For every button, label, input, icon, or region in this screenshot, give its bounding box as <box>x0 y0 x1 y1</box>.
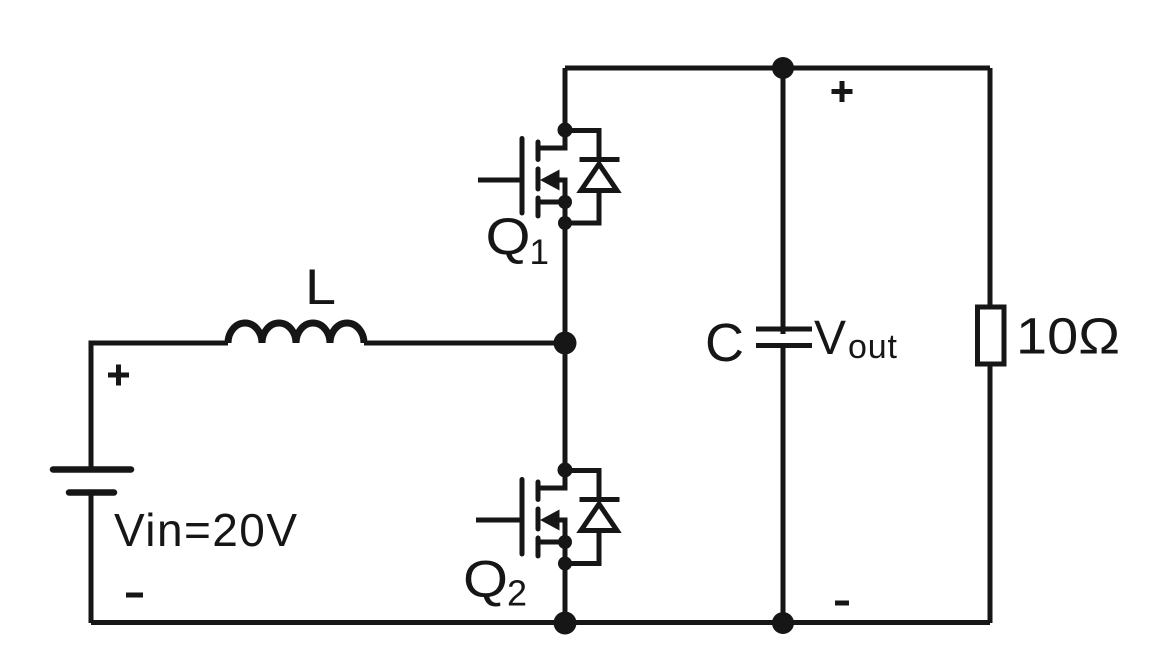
wire: Q2 source down to bottom rail <box>563 564 568 624</box>
Q1 drain node dot <box>558 123 573 138</box>
Q1 source/body dot <box>558 195 572 209</box>
Q2 body arrow line <box>558 520 565 542</box>
svg-text:2: 2 <box>507 573 527 614</box>
battery Vin negative plate (short) <box>69 489 114 496</box>
wire: left rail lower (battery - plate to bottom rail) <box>89 493 94 624</box>
wire: inductor right lead to switching node <box>364 341 565 346</box>
transistor Q1 (N-MOSFET with body diode) <box>478 123 620 231</box>
Q2 drain internal connection <box>538 470 565 488</box>
label + (output positive) <box>832 81 853 102</box>
svg-text:10Ω: 10Ω <box>1016 308 1120 365</box>
label + (Vin positive) <box>108 365 129 386</box>
wire: top rail from Q1 drain branch to right rail <box>565 66 990 71</box>
svg-text:1: 1 <box>530 233 549 272</box>
wire: Q1 drain up to top rail <box>563 68 568 130</box>
resistor R_load body <box>978 307 1005 364</box>
wire: right rail lower (resistor to bottom rail) <box>988 364 993 623</box>
Q2 drain node dot <box>558 463 573 478</box>
Q1 body diode triangle <box>581 164 617 191</box>
node: bottom capacitor junction dot <box>772 612 794 634</box>
Q2 diode branch bottom <box>565 531 599 564</box>
label - (Vin negative) <box>126 593 143 598</box>
Q2 body arrow head <box>540 510 560 531</box>
Q2 body diode cathode bar <box>580 497 620 502</box>
Q2 source/body dot <box>558 535 572 549</box>
Q2 diode branch top <box>565 471 599 498</box>
Q2 diode/source junction dot <box>558 557 572 571</box>
svg-text:out: out <box>848 328 898 366</box>
label Q2 <box>463 551 527 614</box>
wire: switching node down to Q2 drain <box>563 343 568 470</box>
Q1 body arrow line <box>558 180 565 202</box>
label Q1 <box>486 208 549 272</box>
Q1 body diode cathode bar <box>580 157 620 162</box>
battery Vin positive plate (long) <box>53 466 131 473</box>
svg-text:Q: Q <box>463 551 508 609</box>
label - (output negative) <box>835 601 849 606</box>
wire: right rail upper (top rail corner down to resistor) <box>988 68 993 307</box>
svg-text:Q: Q <box>486 208 531 266</box>
Q2 source internal connection <box>538 542 565 564</box>
node: top output junction dot <box>772 57 794 79</box>
label Vout <box>814 312 898 366</box>
inductor L winding (4 arcs) <box>228 323 364 343</box>
transistor Q2 (N-MOSFET with body diode) <box>476 463 620 571</box>
Q1 source internal connection <box>538 202 565 223</box>
svg-text:C: C <box>705 313 744 373</box>
Q1 diode branch bottom <box>565 191 599 224</box>
capacitor C branch upper wire <box>781 68 786 334</box>
Q1 channel segments <box>536 142 541 216</box>
capacitor C top plate <box>756 327 812 332</box>
Q2 gate lead <box>476 518 522 523</box>
wire: inductor left lead <box>89 341 229 346</box>
Q2 channel segments <box>536 482 541 556</box>
Q1 drain internal connection <box>538 130 565 148</box>
svg-text:L: L <box>305 259 336 315</box>
node: switching node junction dot <box>554 332 577 355</box>
node: bottom Q2 junction dot <box>554 612 577 635</box>
wire: left rail upper (inductor corner down to battery + plate) <box>89 343 94 469</box>
Q2 gate bar <box>520 480 525 555</box>
Q2 body diode triangle <box>581 504 617 531</box>
capacitor C branch lower wire <box>781 346 786 624</box>
svg-text:Vin=20V: Vin=20V <box>114 504 297 556</box>
Q1 gate lead <box>478 178 522 183</box>
Q1 gate bar <box>520 139 525 214</box>
svg-text:V: V <box>814 312 846 365</box>
Q1 diode branch top <box>565 131 599 158</box>
wire: bottom rail <box>91 620 990 625</box>
wire: switching node up to Q1 source <box>563 223 568 343</box>
capacitor C bottom plate <box>756 343 812 348</box>
Q1 body arrow head <box>540 170 560 191</box>
Q1 diode/source junction dot <box>558 216 572 230</box>
